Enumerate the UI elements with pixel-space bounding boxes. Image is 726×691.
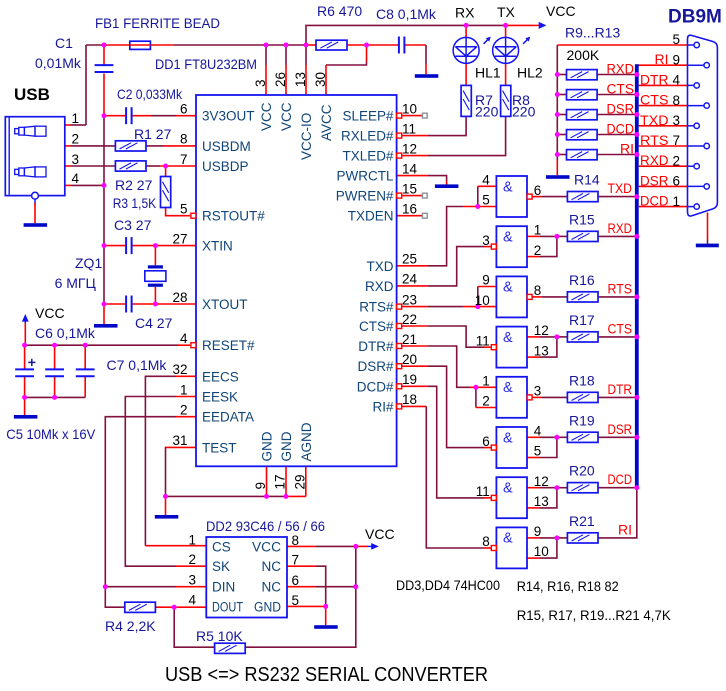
svg-text:TEST: TEST (202, 440, 237, 455)
svg-text:HL1: HL1 (475, 65, 501, 81)
svg-text:10: 10 (402, 101, 417, 116)
svg-text:DTR#: DTR# (358, 339, 394, 354)
svg-text:R3 1,5K: R3 1,5K (113, 195, 157, 211)
svg-text:200K: 200K (567, 47, 600, 63)
svg-text:9: 9 (534, 524, 542, 539)
svg-text:2: 2 (72, 132, 80, 147)
svg-text:EESK: EESK (202, 390, 238, 405)
svg-text:9: 9 (253, 482, 268, 490)
svg-text:9: 9 (673, 52, 681, 67)
svg-text:DCD: DCD (607, 121, 635, 137)
svg-text:4: 4 (188, 592, 196, 607)
svg-text:12: 12 (402, 141, 417, 156)
svg-text:18: 18 (402, 392, 417, 407)
svg-text:R2 27: R2 27 (115, 177, 153, 193)
svg-text:3: 3 (673, 113, 681, 128)
svg-text:5: 5 (292, 593, 300, 608)
svg-text:&: & (503, 330, 513, 346)
svg-text:14: 14 (402, 161, 418, 176)
svg-text:1: 1 (482, 374, 490, 389)
svg-text:NC: NC (262, 580, 282, 595)
svg-text:TXD: TXD (608, 180, 633, 196)
svg-text:RTS: RTS (608, 280, 633, 296)
svg-text:FB1 FERRITE BEAD: FB1 FERRITE BEAD (95, 15, 220, 31)
svg-text:GND: GND (279, 431, 294, 461)
svg-text:3: 3 (253, 79, 268, 87)
svg-text:XTOUT: XTOUT (202, 297, 248, 312)
svg-text:4: 4 (482, 173, 490, 188)
svg-text:CS: CS (212, 539, 231, 554)
svg-text:&: & (503, 481, 513, 497)
svg-text:DCD: DCD (608, 471, 633, 487)
svg-text:R5 10K: R5 10K (196, 628, 243, 644)
svg-text:R16: R16 (569, 272, 595, 288)
svg-text:CTS: CTS (607, 81, 635, 97)
svg-text:SK: SK (212, 559, 230, 574)
svg-text:TX: TX (497, 4, 516, 20)
svg-text:R19: R19 (569, 412, 595, 428)
svg-text:6: 6 (180, 102, 188, 117)
svg-text:1: 1 (180, 382, 188, 397)
svg-text:RI: RI (618, 521, 632, 537)
svg-text:NC: NC (262, 559, 282, 574)
svg-text:RTS: RTS (640, 132, 669, 148)
svg-text:RESET#: RESET# (202, 338, 255, 353)
svg-text:10: 10 (475, 293, 490, 308)
svg-text:C8 0,1Mk: C8 0,1Mk (376, 6, 437, 22)
svg-text:5: 5 (180, 202, 188, 217)
svg-text:DD1 FT8U232BM: DD1 FT8U232BM (155, 56, 257, 72)
svg-text:2: 2 (534, 243, 542, 258)
svg-text:HL2: HL2 (517, 65, 543, 81)
svg-text:8: 8 (292, 533, 300, 548)
svg-text:DTR: DTR (640, 71, 669, 87)
svg-text:DSR: DSR (607, 101, 635, 117)
svg-text:CTS: CTS (608, 320, 633, 336)
svg-text:C4 27: C4 27 (135, 315, 173, 331)
svg-text:29: 29 (293, 474, 308, 489)
svg-text:10: 10 (534, 544, 549, 559)
svg-text:DD2 93C46 / 56 / 66: DD2 93C46 / 56 / 66 (206, 518, 325, 534)
svg-text:2: 2 (482, 394, 490, 409)
svg-text:8: 8 (673, 93, 681, 108)
svg-text:R20: R20 (569, 463, 595, 479)
svg-text:USB: USB (14, 85, 50, 104)
svg-text:RSTOUT#: RSTOUT# (202, 209, 265, 224)
svg-text:RXD: RXD (607, 61, 635, 77)
svg-text:7: 7 (180, 152, 188, 167)
svg-text:RX: RX (455, 5, 475, 21)
svg-text:22: 22 (402, 312, 417, 327)
svg-text:VCC: VCC (279, 102, 294, 131)
svg-text:1: 1 (188, 532, 196, 547)
svg-text:1: 1 (534, 223, 542, 238)
svg-text:6: 6 (534, 183, 542, 198)
svg-text:11: 11 (402, 121, 416, 136)
svg-text:RI: RI (655, 51, 669, 67)
svg-text:VCC: VCC (252, 539, 281, 554)
svg-text:C6 0,1Mk: C6 0,1Mk (35, 325, 96, 341)
svg-text:DSR#: DSR# (357, 359, 394, 374)
svg-text:EEDATA: EEDATA (202, 410, 254, 425)
svg-text:24: 24 (402, 272, 418, 287)
svg-text:DD3,DD4 74HC00: DD3,DD4 74HC00 (396, 577, 500, 593)
svg-text:16: 16 (402, 202, 417, 217)
svg-text:VCC: VCC (259, 102, 274, 131)
svg-text:13: 13 (293, 72, 308, 87)
svg-text:8: 8 (534, 283, 542, 298)
svg-text:12: 12 (534, 474, 549, 489)
svg-text:DCD: DCD (640, 193, 669, 209)
svg-text:&: & (503, 179, 513, 195)
svg-text:15: 15 (402, 181, 417, 196)
svg-text:2: 2 (673, 153, 681, 168)
svg-text:1: 1 (673, 194, 681, 209)
svg-text:RI#: RI# (372, 399, 394, 414)
svg-text:ZQ1: ZQ1 (75, 255, 102, 271)
svg-text:5: 5 (482, 193, 490, 208)
svg-text:13: 13 (534, 343, 549, 358)
svg-text:R21: R21 (569, 513, 595, 529)
svg-text:DTR: DTR (608, 381, 633, 397)
svg-text:C1: C1 (55, 35, 73, 51)
svg-text:25: 25 (402, 252, 417, 267)
svg-text:VCC: VCC (35, 305, 65, 321)
svg-text:2: 2 (180, 403, 188, 418)
svg-text:3: 3 (72, 152, 80, 167)
svg-text:32: 32 (172, 362, 187, 377)
svg-text:4: 4 (534, 424, 542, 439)
svg-text:&: & (503, 230, 513, 246)
svg-text:GND: GND (260, 431, 275, 461)
svg-text:USB <=> RS232 SERIAL CONVERTER: USB <=> RS232 SERIAL CONVERTER (165, 664, 488, 686)
svg-text:R15, R17, R19...R21 4,7K: R15, R17, R19...R21 4,7K (517, 607, 672, 623)
svg-text:VCC: VCC (546, 3, 576, 19)
svg-text:VCC-IO: VCC-IO (299, 113, 314, 160)
svg-text:PWREN#: PWREN# (336, 189, 394, 204)
svg-text:31: 31 (172, 433, 187, 448)
svg-text:23: 23 (402, 292, 417, 307)
svg-text:19: 19 (402, 372, 417, 387)
svg-text:21: 21 (402, 332, 417, 347)
svg-text:0,01Mk: 0,01Mk (35, 55, 82, 71)
svg-text:3V3OUT: 3V3OUT (202, 109, 255, 124)
svg-text:DOUT: DOUT (212, 599, 243, 614)
svg-text:C5 10Mk x 16V: C5 10Mk x 16V (6, 426, 96, 442)
svg-text:DSR: DSR (608, 421, 633, 437)
svg-text:R4 2,2K: R4 2,2K (105, 618, 156, 634)
svg-text:7: 7 (292, 553, 300, 568)
svg-text:C3 27: C3 27 (114, 217, 152, 233)
svg-text:TXDEN: TXDEN (348, 209, 394, 224)
svg-text:R14, R16, R18 82: R14, R16, R18 82 (517, 578, 619, 594)
svg-text:TXD: TXD (367, 259, 394, 274)
svg-text:9: 9 (482, 273, 490, 288)
svg-text:PWRCTL: PWRCTL (337, 169, 394, 184)
svg-text:DCD#: DCD# (357, 379, 394, 394)
svg-text:R14: R14 (574, 172, 600, 188)
svg-text:220: 220 (512, 104, 536, 120)
svg-text:5: 5 (534, 444, 542, 459)
svg-text:220: 220 (475, 104, 499, 120)
svg-text:AGND: AGND (299, 422, 314, 461)
svg-text:RXLED#: RXLED# (341, 129, 394, 144)
svg-text:30: 30 (313, 72, 328, 87)
svg-text:USBDM: USBDM (202, 139, 251, 154)
svg-text:28: 28 (172, 290, 187, 305)
svg-text:VCC: VCC (365, 526, 395, 542)
svg-text:R6 470: R6 470 (317, 3, 362, 19)
svg-text:RTS#: RTS# (359, 300, 394, 315)
svg-text:3: 3 (188, 573, 196, 588)
svg-text:13: 13 (534, 494, 549, 509)
svg-text:RI: RI (620, 141, 634, 157)
svg-text:4: 4 (673, 73, 681, 88)
svg-text:USBDP: USBDP (202, 159, 249, 174)
svg-text:R17: R17 (569, 312, 595, 328)
svg-text:2: 2 (188, 552, 196, 567)
svg-text:C2 0,033Mk: C2 0,033Mk (117, 86, 183, 102)
svg-text:CTS: CTS (640, 92, 669, 108)
svg-text:&: & (503, 430, 513, 446)
svg-text:8: 8 (180, 132, 188, 147)
svg-text:3: 3 (534, 384, 542, 399)
svg-text:26: 26 (273, 72, 288, 87)
svg-text:4: 4 (180, 331, 188, 346)
svg-text:&: & (503, 280, 513, 296)
svg-text:27: 27 (172, 231, 187, 246)
svg-text:&: & (503, 531, 513, 547)
svg-text:DSR: DSR (640, 172, 669, 188)
svg-text:6 МГЦ: 6 МГЦ (55, 275, 97, 291)
svg-text:RXD: RXD (608, 220, 633, 236)
svg-text:R1 27: R1 27 (134, 126, 172, 142)
svg-text:SLEEP#: SLEEP# (342, 109, 394, 124)
svg-text:C7 0,1Mk: C7 0,1Mk (107, 357, 168, 373)
svg-text:7: 7 (673, 133, 681, 148)
svg-text:DIN: DIN (212, 580, 235, 595)
svg-text:&: & (503, 380, 513, 396)
svg-text:TXD: TXD (640, 112, 669, 128)
svg-text:DB9M: DB9M (668, 7, 722, 28)
svg-text:6: 6 (673, 174, 681, 189)
svg-text:RXD: RXD (640, 152, 669, 168)
svg-text:XTIN: XTIN (202, 239, 233, 254)
svg-text:EECS: EECS (202, 369, 239, 384)
svg-text:11: 11 (476, 484, 490, 499)
svg-text:R18: R18 (569, 372, 595, 388)
svg-text:RXD: RXD (365, 279, 394, 294)
svg-text:R9...R13: R9...R13 (565, 25, 620, 41)
svg-text:5: 5 (673, 32, 681, 47)
svg-text:11: 11 (476, 333, 490, 348)
svg-text:8: 8 (482, 534, 490, 549)
svg-text:AVCC: AVCC (319, 104, 334, 141)
svg-text:20: 20 (402, 352, 417, 367)
svg-text:6: 6 (292, 573, 300, 588)
svg-text:GND: GND (254, 599, 281, 614)
svg-text:R15: R15 (569, 211, 595, 227)
svg-text:4: 4 (72, 171, 80, 186)
svg-text:17: 17 (273, 474, 288, 489)
svg-text:TXLED#: TXLED# (342, 149, 394, 164)
svg-text:CTS#: CTS# (359, 319, 394, 334)
svg-text:6: 6 (482, 434, 490, 449)
svg-text:12: 12 (534, 323, 549, 338)
svg-text:3: 3 (482, 233, 490, 248)
svg-text:1: 1 (72, 111, 80, 126)
